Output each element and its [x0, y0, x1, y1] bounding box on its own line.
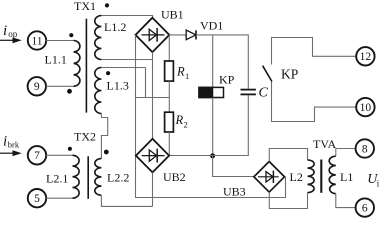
wire terminal 7 to L2.1 [46, 154, 72, 156]
inductor L1.1 [74, 41, 80, 87]
junction dot [210, 153, 215, 158]
terminal 10 [356, 98, 374, 116]
bridge rectifier UB1 [136, 18, 170, 52]
wire L1.3 bottom jog down to L2.2 [101, 114, 107, 159]
wire L1 bottom to terminal 6 [336, 194, 356, 208]
inductor L2.2 [95, 159, 102, 196]
inductor L1.3 [95, 68, 102, 114]
svg-text:L2: L2 [290, 170, 303, 184]
terminal 9 [28, 77, 46, 95]
relay coil KP [199, 87, 224, 97]
wire terminal 11 to L1.1 [46, 40, 73, 42]
wire UB3 top vertex to TVA L2 top [269, 149, 307, 162]
label U out [367, 172, 379, 189]
svg-text:9: 9 [34, 81, 40, 93]
polarity dot L1.3 [106, 71, 110, 75]
svg-text:5: 5 [34, 193, 40, 205]
inductor L2 TVA [308, 160, 315, 193]
svg-text:UB3: UB3 [223, 185, 246, 199]
label R2 [175, 113, 188, 130]
wire L1.2 bottom to UB1 bottom vertex [101, 59, 152, 61]
inductor L2.1 [73, 155, 80, 198]
wire node L1.3 top drop [145, 68, 147, 98]
terminal 7 [28, 146, 46, 164]
svg-text:VD1: VD1 [200, 19, 223, 33]
svg-text:R: R [175, 113, 184, 127]
svg-text:8: 8 [362, 143, 368, 155]
wire UB2 bottom vertex down [152, 172, 154, 206]
wire terminal 5 to L2.1 [46, 197, 72, 199]
polarity dot L1.2 [105, 3, 109, 7]
wire relay coil to junction [212, 98, 214, 157]
polarity dot L1.1 bottom [67, 89, 72, 94]
wire horizontal tie y=97.9 [136, 97, 170, 99]
svg-text:TX1: TX1 [74, 0, 96, 13]
svg-text:L1.2: L1.2 [104, 20, 126, 34]
wire contact KP lower to terminal 10 [272, 82, 357, 122]
svg-text:L1.1: L1.1 [45, 53, 67, 67]
svg-text:L2.1: L2.1 [46, 171, 68, 185]
wire L1.3 top [101, 67, 145, 69]
bridge rectifier UB3 [254, 162, 285, 193]
svg-text:L1: L1 [340, 170, 353, 184]
wire junction to UB3 left vertex [213, 156, 254, 177]
label i_op [3, 23, 18, 39]
terminal 6 [356, 198, 374, 216]
terminal 5 [28, 189, 46, 207]
svg-text:1: 1 [185, 71, 189, 81]
arrow i_brk [0, 150, 22, 156]
svg-text:i: i [3, 23, 7, 39]
svg-text:6: 6 [362, 203, 368, 215]
polarity dot L2.1 [68, 147, 72, 151]
svg-text:i: i [3, 134, 7, 150]
svg-text:L1.3: L1.3 [107, 78, 129, 92]
wire UB1 left vertex rail down and right to UB3 right vertex [136, 35, 286, 198]
contact KP blade [263, 66, 272, 82]
svg-text:C: C [259, 86, 269, 101]
bridge rectifier UB2 [136, 139, 169, 173]
svg-text:R: R [176, 65, 185, 79]
svg-text:brk: brk [8, 139, 20, 149]
polarity dot L1.1 top [69, 33, 73, 37]
transformer TVA core [320, 160, 322, 193]
svg-text:11: 11 [31, 35, 42, 47]
terminal 8 [356, 139, 374, 157]
terminal 11 [28, 31, 46, 49]
wire UB1 bottom vertex to UB2 top vertex [152, 52, 154, 139]
wire UB1 right vertex down to R1 [168, 35, 170, 61]
arrow i_op [0, 37, 22, 43]
wire UB1 right vertex to VD1 [169, 34, 186, 36]
svg-text:UB2: UB2 [163, 170, 186, 184]
svg-text:10: 10 [360, 102, 372, 114]
wire terminal 9 to L1.1 [46, 85, 74, 87]
resistor R1 [165, 61, 174, 81]
transformer TX1 core [85, 19, 87, 113]
label R1 [176, 65, 189, 82]
wire UB3 bottom vertex to TVA L2 bottom [269, 192, 307, 208]
svg-text:2: 2 [184, 120, 188, 130]
wire R2 to UB2 right vertex [168, 132, 170, 156]
wire L1.2 top to UB1 [101, 16, 152, 18]
svg-text:12: 12 [360, 51, 372, 63]
inductor L1.2 [95, 16, 102, 60]
transformer TX2 core [87, 156, 89, 199]
resistor R2 [165, 112, 174, 132]
svg-text:7: 7 [34, 150, 40, 162]
svg-text:TX2: TX2 [74, 130, 96, 144]
wire VD1 to capacitor branch corner [196, 35, 248, 89]
wire R1 to R2 [168, 81, 170, 112]
label i_brk [3, 134, 20, 150]
svg-text:UB1: UB1 [161, 7, 184, 21]
polarity dot L2.2 [104, 150, 109, 155]
terminal 12 [356, 47, 374, 65]
svg-text:L2.2: L2.2 [107, 171, 129, 185]
diode VD1 [186, 30, 196, 40]
wire relay branch down [212, 35, 214, 88]
svg-text:KP: KP [281, 67, 298, 82]
svg-text:KP: KP [219, 72, 235, 86]
wire L1 top to terminal 8 [336, 149, 356, 157]
svg-text:TVA: TVA [313, 137, 336, 151]
inductor L1 TVA [329, 156, 336, 194]
wire contact KP upper to terminal 12 [272, 38, 357, 65]
wire L2.2 bottom to UB2 bottom [101, 195, 152, 206]
capacitor C [241, 90, 256, 95]
wire capacitor bottom to UB2 right rail [169, 95, 248, 155]
